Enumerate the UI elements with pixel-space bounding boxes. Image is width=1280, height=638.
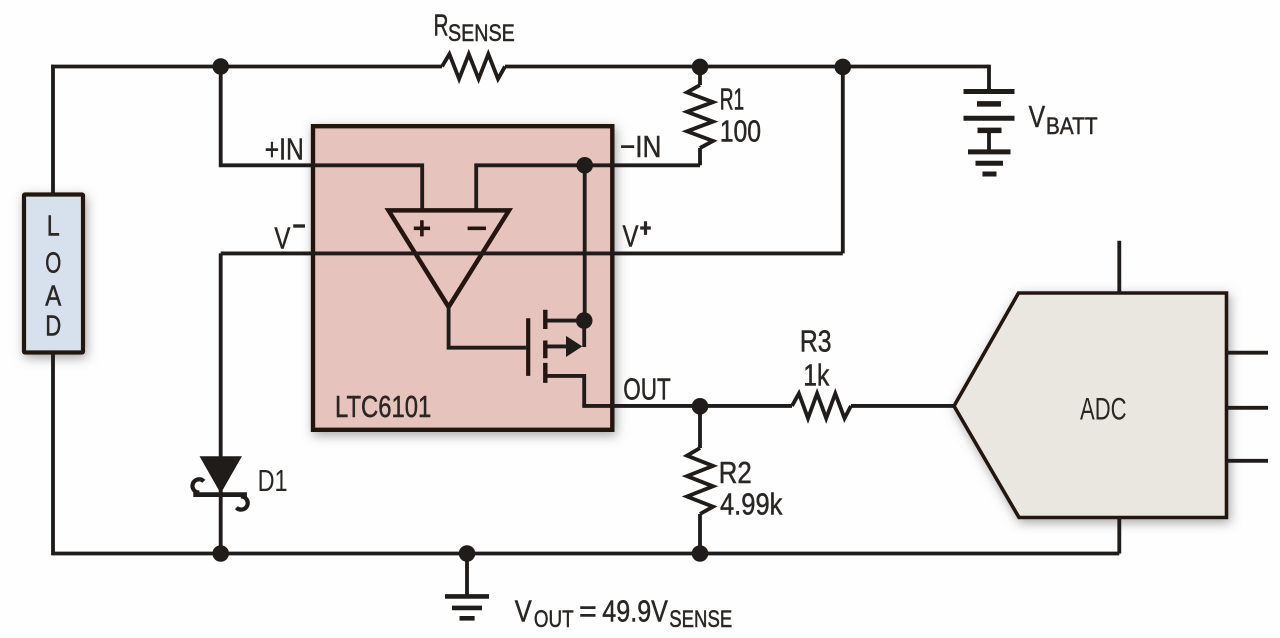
svg-text:R: R bbox=[434, 7, 449, 42]
mosfet body vertical bbox=[582, 321, 586, 347]
battery internal wire bbox=[987, 130, 991, 152]
wire OUT bbox=[584, 404, 792, 406]
wire battery drop bbox=[987, 65, 991, 92]
op-amp block LTC6101 bbox=[313, 126, 612, 430]
svg-text:SENSE: SENSE bbox=[669, 606, 732, 633]
mosfet source stub bbox=[547, 376, 584, 406]
load block bbox=[24, 195, 83, 353]
svg-text:O: O bbox=[45, 248, 61, 280]
junction bottom rail / ground bbox=[459, 545, 476, 562]
junction bottom rail / R2 bbox=[692, 545, 709, 562]
svg-text:R1: R1 bbox=[720, 82, 745, 117]
junction -IN net / drain branch bbox=[576, 157, 593, 174]
op-amp output to mosfet gate bbox=[449, 305, 527, 348]
battery ground plates bbox=[968, 149, 1011, 154]
junction OUT net / R2 bbox=[692, 398, 709, 415]
svg-text:V: V bbox=[274, 220, 290, 255]
svg-text:100: 100 bbox=[720, 114, 761, 149]
wire V- / V+ supply line bbox=[221, 251, 843, 255]
resistor R3 bbox=[792, 394, 851, 419]
ADC top pin bbox=[1117, 241, 1121, 293]
junction top rail / V+ branch bbox=[835, 59, 852, 76]
svg-text:SENSE: SENSE bbox=[448, 20, 515, 47]
svg-text:L: L bbox=[47, 211, 60, 243]
wire V- drop through D1 to bottom rail bbox=[219, 253, 223, 553]
svg-text:V: V bbox=[515, 594, 532, 629]
battery VBATT plates bbox=[964, 89, 1015, 94]
wire left drop to load bbox=[51, 65, 55, 196]
op-amp triangle bbox=[389, 210, 510, 307]
svg-text:BATT: BATT bbox=[1046, 113, 1098, 140]
svg-text:OUT: OUT bbox=[623, 372, 671, 407]
svg-text:49.9V: 49.9V bbox=[602, 594, 668, 629]
ADC bottom pin bbox=[1117, 518, 1121, 554]
load label bbox=[45, 211, 62, 343]
svg-text:OUT: OUT bbox=[534, 606, 574, 633]
wire load to bottom rail bbox=[53, 351, 1119, 554]
svg-text:V: V bbox=[1029, 99, 1046, 134]
wire R3 to ADC bbox=[851, 404, 954, 408]
resistor R1 bbox=[698, 68, 702, 86]
svg-text:D1: D1 bbox=[258, 463, 288, 498]
junction top rail / +IN branch bbox=[212, 58, 229, 75]
mosfet body stub bbox=[547, 344, 566, 348]
ADC right pins bbox=[1227, 353, 1269, 461]
ground bbox=[465, 554, 469, 597]
wire -IN branch bbox=[476, 165, 700, 210]
svg-text:V: V bbox=[623, 218, 639, 253]
svg-text:4.99k: 4.99k bbox=[720, 487, 783, 522]
resistor RSENSE bbox=[442, 54, 505, 79]
op-amp plus input mark bbox=[414, 220, 430, 236]
svg-text:R2: R2 bbox=[719, 455, 752, 490]
resistor R2 bbox=[698, 406, 702, 448]
wire +IN branch bbox=[221, 67, 423, 211]
mosfet Q1 gate bar bbox=[526, 318, 530, 376]
svg-text:=: = bbox=[579, 594, 597, 629]
mosfet drain stub bbox=[547, 319, 584, 323]
mosfet channel segments bbox=[543, 310, 547, 383]
wire top rail right bbox=[505, 65, 989, 69]
svg-text:+IN: +IN bbox=[265, 132, 304, 167]
junction top rail / R1 bbox=[692, 59, 709, 76]
svg-text:A: A bbox=[45, 281, 62, 313]
svg-text:ADC: ADC bbox=[1080, 390, 1127, 426]
svg-text:LTC6101: LTC6101 bbox=[335, 389, 431, 424]
svg-text:R3: R3 bbox=[800, 324, 832, 359]
svg-text:1k: 1k bbox=[803, 358, 829, 393]
junction mosfet drain bbox=[576, 312, 593, 329]
svg-text:D: D bbox=[45, 311, 61, 343]
ADC block bbox=[954, 293, 1227, 518]
wire -IN to mosfet drain bbox=[583, 165, 587, 320]
mosfet body arrow bbox=[566, 336, 582, 357]
svg-text:−IN: −IN bbox=[620, 129, 661, 164]
junction bottom rail / D1 bbox=[212, 545, 229, 562]
wire V+ branch bbox=[841, 67, 845, 254]
op-amp minus input mark bbox=[468, 227, 486, 231]
wire top rail left bbox=[53, 67, 442, 69]
zener diode D1 bbox=[200, 457, 241, 493]
